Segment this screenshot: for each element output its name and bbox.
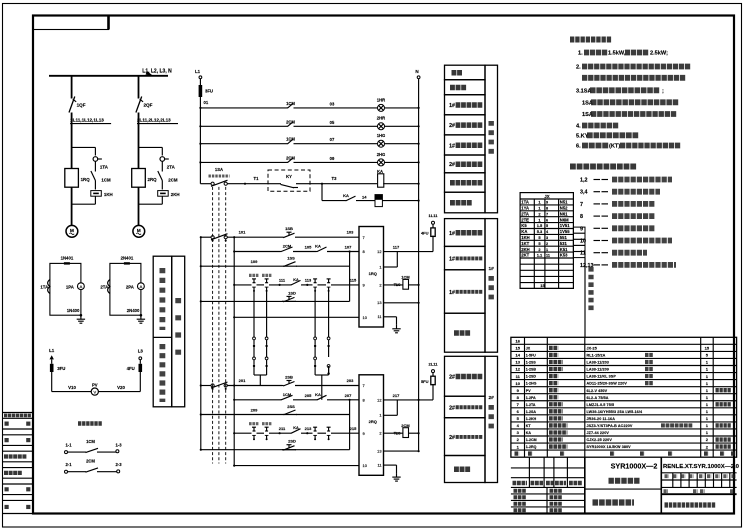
revision table row text (5, 438, 10, 442)
svg-text:K51: K51 (560, 247, 568, 252)
svg-text:(KT): (KT) (609, 144, 620, 150)
svg-text:1-3: 1-3 (115, 443, 122, 448)
svg-text:2TA: 2TA (521, 211, 529, 216)
breaker 1QF (69, 97, 75, 113)
svg-text:2QF: 2QF (144, 103, 153, 108)
group bracket pump2 (485, 356, 498, 482)
wire feeder 1 drop (71, 76, 73, 99)
svg-text:KA: KA (377, 169, 383, 174)
svg-text:4.: 4. (576, 124, 581, 130)
svg-text:1-1: 1-1 (65, 443, 72, 448)
label cell (445, 95, 486, 115)
svg-text:2TA: 2TA (100, 285, 108, 290)
svg-text:RL1-15/2A: RL1-15/2A (587, 354, 606, 358)
contact 2CM (287, 125, 289, 127)
svg-text:1QF: 1QF (77, 103, 86, 108)
svg-text:2L11,2L12,2L13: 2L11,2L12,2L13 (137, 118, 171, 123)
svg-text:1KH: 1KH (104, 192, 113, 197)
interlock contact a pump 1 (314, 279, 316, 283)
svg-text:1SD: 1SD (288, 290, 296, 295)
svg-text:2#: 2# (449, 162, 455, 168)
svg-text:205: 205 (305, 393, 312, 398)
label cell (445, 246, 486, 269)
current transformer 1TA (93, 157, 98, 162)
svg-text:1.5: 1.5 (537, 223, 543, 228)
svg-text:14: 14 (515, 353, 520, 358)
pushbutton 1SS (283, 265, 285, 267)
svg-text:10: 10 (515, 381, 520, 386)
pushbutton 1SB (282, 236, 284, 238)
wire seal vertical pump 1 (349, 252, 351, 302)
wire interlock join left (254, 374, 267, 376)
svg-text:15: 15 (705, 346, 710, 351)
svg-text:K53: K53 (560, 253, 568, 258)
contact KA run pump 1 (316, 251, 318, 253)
svg-text:1CM: 1CM (101, 178, 111, 183)
svg-text:CJX2-25 220V: CJX2-25 220V (587, 438, 613, 442)
label to central control room (78, 421, 103, 426)
label cell (445, 173, 486, 192)
ammeter 1PA (78, 283, 85, 290)
wire rung lamp 1HR (200, 107, 286, 109)
svg-text:1-2SB: 1-2SB (526, 368, 537, 372)
svg-text:1HG: 1HG (377, 133, 386, 138)
svg-text:K5: K5 (521, 223, 527, 228)
svg-text:2CM: 2CM (286, 119, 295, 124)
label cell (445, 356, 486, 396)
svg-text:5: 5 (546, 224, 548, 228)
fuse 4FU (431, 228, 435, 237)
svg-text:2-1: 2-1 (65, 462, 72, 467)
svg-text:1-2HG: 1-2HG (526, 382, 537, 386)
svg-text:1#: 1# (449, 103, 455, 109)
wire rung timer (322, 200, 345, 202)
svg-text:1-2SA: 1-2SA (526, 410, 537, 414)
timer contact 2KT pump 1 (266, 279, 268, 283)
title block frame (584, 457, 586, 513)
svg-text:2N400: 2N400 (127, 308, 140, 313)
svg-text:113: 113 (305, 278, 312, 283)
svg-text:7: 7 (546, 212, 548, 216)
svg-text:2CM: 2CM (286, 155, 295, 160)
wire bypass branch 1 (72, 146, 96, 148)
svg-text:2SD: 2SD (288, 439, 296, 444)
wire feeder 1 main (71, 113, 73, 169)
interlock column 1CM a (253, 291, 255, 337)
label cell (445, 192, 486, 213)
thermal relay 1KH (91, 191, 102, 197)
svg-text:JSZ3-Y/ST3PA-B AC220V: JSZ3-Y/ST3PA-B AC220V (587, 424, 633, 428)
vertical label measuring circuit (175, 298, 181, 366)
svg-text:551: 551 (560, 235, 568, 240)
svg-text:1.5kW,: 1.5kW, (608, 51, 626, 57)
svg-text:1-2PA: 1-2PA (526, 396, 536, 400)
svg-text:12,13: 12,13 (580, 263, 594, 269)
svg-text:V20: V20 (117, 385, 125, 390)
bill of materials table (511, 337, 737, 457)
svg-text:2PA: 2PA (126, 285, 134, 290)
svg-text:1V55: 1V55 (560, 229, 570, 234)
notes line 3 (582, 75, 686, 81)
breaker 2QF (136, 97, 142, 113)
svg-text:2TE: 2TE (521, 217, 529, 222)
timer contact 2KT pump 2 (266, 427, 268, 431)
pushbutton 2SD (282, 449, 284, 451)
selector contacts pump 2 (211, 384, 214, 387)
svg-text:6: 6 (546, 218, 548, 222)
title block signature rows (511, 493, 585, 495)
wire pin2 coil pump 2 (384, 432, 403, 434)
wire motor feed 2 (138, 187, 140, 225)
svg-text:10: 10 (363, 463, 368, 468)
wire voltmeter right (98, 391, 140, 393)
svg-text:RENLE.XT.SYR.1000X—2.0: RENLE.XT.SYR.1000X—2.0 (663, 464, 739, 470)
svg-text:2KH: 2KH (521, 247, 529, 252)
title drawing name (609, 478, 641, 484)
wire pin12 supply pump 2 (384, 399, 434, 401)
svg-text:2HG: 2HG (377, 152, 386, 157)
svg-text:10: 10 (363, 315, 368, 320)
svg-text:1SS: 1SS (287, 256, 295, 261)
label cell (445, 418, 486, 456)
title strip box top-left (33, 16, 109, 30)
title right small grid (672, 473, 674, 488)
notes title pump control description (570, 37, 612, 43)
svg-text:2HR: 2HR (377, 116, 385, 121)
svg-text:JZ7-44 220V: JZ7-44 220V (587, 431, 610, 435)
svg-text:2RQ: 2RQ (369, 419, 377, 424)
wire rung lamp 2HG (200, 161, 286, 163)
wire pin11 earth pump 2 (384, 464, 397, 466)
wire rung lamp 1HG (200, 143, 286, 145)
svg-text:1#: 1# (449, 290, 455, 296)
svg-text:JX: JX (544, 194, 549, 199)
svg-text:1-2SD: 1-2SD (526, 375, 537, 379)
svg-text:11: 11 (377, 314, 381, 319)
svg-text:KY: KY (286, 174, 292, 179)
svg-text:13: 13 (515, 360, 520, 365)
svg-text:11: 11 (580, 251, 586, 257)
contact 2CM interlock (280, 251, 282, 253)
measuring loop 2 wire (110, 263, 141, 315)
svg-text:13: 13 (377, 300, 381, 305)
svg-text:2: 2 (379, 431, 381, 436)
svg-text:01: 01 (204, 100, 209, 105)
svg-text:217: 217 (393, 393, 400, 398)
terminal strip table JX (520, 193, 573, 289)
svg-text:N52: N52 (560, 206, 568, 211)
revision table row text (5, 505, 10, 509)
label cell (445, 80, 486, 95)
svg-text:05: 05 (330, 120, 335, 125)
svg-text:N51: N51 (560, 200, 568, 205)
svg-text:107: 107 (345, 245, 352, 250)
svg-text:3FU: 3FU (57, 366, 65, 371)
notes title soft starter terminals (570, 164, 637, 170)
title block left revision grid (511, 467, 585, 469)
svg-text:5.KY: 5.KY (576, 134, 589, 140)
wire rail L1 control (199, 97, 201, 184)
wire KY to KA coil (310, 183, 377, 185)
revision table header text (4, 414, 32, 418)
svg-text:L1: L1 (195, 69, 201, 74)
svg-text:1CM: 1CM (283, 392, 292, 397)
label cell (445, 456, 486, 483)
soft starter box 2RQ control (359, 375, 384, 476)
wire rung soft stop pump 2 (201, 449, 350, 451)
svg-text:1-5FU: 1-5FU (526, 354, 536, 358)
junction dot N and 217 (418, 399, 420, 401)
svg-text:L1: L1 (49, 348, 55, 353)
wire bypass rejoin 2 (161, 196, 163, 204)
svg-text:2: 2 (379, 282, 381, 287)
wire pin13 neutral pump 1 (384, 302, 419, 304)
svg-text:;: ; (662, 89, 664, 95)
svg-text:KA: KA (315, 244, 321, 249)
wire rung automatic control (200, 183, 211, 185)
svg-text:1L11: 1L11 (429, 213, 439, 218)
svg-text:KA: KA (343, 193, 349, 198)
svg-text:2CM: 2CM (86, 459, 95, 464)
svg-text:LMZJ1-0.5 75/5: LMZJ1-0.5 75/5 (587, 403, 615, 407)
svg-text:1SB: 1SB (285, 226, 293, 231)
svg-text:2CM: 2CM (168, 178, 178, 183)
svg-text:109: 109 (251, 259, 258, 264)
svg-text:4FU: 4FU (421, 231, 429, 236)
svg-text:9: 9 (580, 226, 583, 232)
svg-text:3: 3 (546, 236, 548, 240)
svg-text:6.: 6. (576, 144, 581, 150)
svg-text:2SB: 2SB (285, 375, 293, 380)
label cell (445, 396, 486, 418)
label cell (445, 313, 486, 352)
svg-text:15: 15 (540, 283, 545, 288)
svg-text:1#: 1# (489, 266, 495, 272)
ground of loop 1 (80, 314, 83, 317)
pushbutton 2SB (282, 385, 284, 387)
svg-text:2KH: 2KH (171, 192, 180, 197)
lamp 2HG (378, 159, 385, 166)
svg-text:2SS: 2SS (287, 404, 295, 409)
svg-text:2.5kW;: 2.5kW; (650, 51, 668, 57)
contact 1CM (287, 143, 289, 145)
soft starter box 1RQ (65, 169, 79, 188)
wire rung start button pump 2 (201, 414, 350, 416)
svg-text:07: 07 (330, 137, 335, 142)
svg-text:7: 7 (580, 202, 583, 208)
svg-text:12: 12 (377, 397, 381, 402)
wire rung stop pump 2 (201, 385, 211, 387)
svg-text:11: 11 (377, 463, 381, 468)
contact 1CM interlock (280, 399, 282, 401)
wire interlock join right (315, 374, 329, 376)
svg-text:207: 207 (345, 393, 352, 398)
ground soft starter pump 2 (396, 473, 398, 477)
measuring loop 1 wire (50, 263, 81, 315)
title company name (665, 502, 717, 507)
wire pin2 coil pump 1 (384, 284, 403, 286)
interlock contact b pump 2 (328, 427, 330, 431)
svg-text:3,4: 3,4 (580, 190, 588, 196)
svg-text:1PA: 1PA (66, 285, 74, 290)
svg-text:5FU: 5FU (421, 379, 429, 384)
bom header row (515, 451, 520, 455)
fuse 3FU (50, 364, 54, 372)
svg-text:V: V (93, 390, 96, 395)
svg-text:209: 209 (251, 408, 258, 413)
svg-text:LA38-11/209: LA38-11/209 (587, 368, 609, 372)
svg-text:115: 115 (350, 278, 357, 283)
timer contact 1KT pump 2 (253, 427, 255, 431)
interlock column 2CM b (328, 291, 330, 337)
wire branch to KT (321, 184, 323, 201)
svg-text:12: 12 (515, 367, 520, 372)
svg-text:1: 1 (546, 248, 548, 252)
svg-text:117: 117 (393, 245, 400, 250)
svg-text:1: 1 (379, 413, 381, 418)
ammeter 2PA (138, 283, 145, 290)
svg-text:1L11,1L12,1L13: 1L11,1L12,1L13 (70, 118, 104, 123)
wire pin1 link pump 1 (384, 266, 398, 268)
svg-text:1CM: 1CM (286, 101, 295, 106)
svg-text:KA: KA (521, 229, 527, 234)
svg-text:03: 03 (330, 101, 335, 106)
wire rung timer contacts pump 1 (234, 284, 251, 286)
svg-text:1RQ: 1RQ (81, 177, 91, 182)
wire pin13 neutral pump 2 (384, 450, 419, 452)
svg-text:2#: 2# (489, 395, 495, 401)
svg-text:KA: KA (293, 426, 299, 430)
wire rail lower left (200, 237, 202, 450)
svg-text:9: 9 (546, 201, 548, 205)
svg-text:2CM: 2CM (401, 423, 410, 428)
wire rung common pump 1 (234, 316, 359, 318)
svg-text:12: 12 (377, 249, 381, 254)
svg-text:T2C: T2C (394, 431, 401, 435)
svg-text:1-2RQ: 1-2RQ (526, 445, 537, 449)
wire bypass rejoin 1 (94, 196, 96, 204)
wire rail N (418, 79, 420, 451)
timer contact 1KT pump 1 (253, 279, 255, 283)
revision table row text (4, 471, 22, 475)
svg-text:1-2TA: 1-2TA (526, 403, 536, 407)
wire rung start pump 1 (234, 251, 280, 253)
svg-text:1#: 1# (449, 256, 455, 262)
svg-text:PV: PV (526, 389, 531, 393)
lamp 1HG (378, 140, 385, 147)
svg-text:1: 1 (379, 264, 381, 269)
svg-text:103: 103 (347, 230, 354, 235)
svg-text:15: 15 (515, 346, 520, 351)
selector contacts pump 1 (211, 236, 214, 239)
terminal table side cells (573, 227, 585, 258)
svg-text:2: 2 (546, 242, 548, 246)
svg-text:1KT: 1KT (521, 241, 529, 246)
bus incoming arrow (146, 71, 154, 76)
contact KA auto pump 2 (290, 432, 292, 434)
svg-text:1CM: 1CM (286, 137, 295, 142)
svg-text:1TA: 1TA (40, 285, 48, 290)
vertical label current measuring circuit (159, 268, 165, 330)
svg-text:8: 8 (546, 207, 548, 211)
svg-text:105: 105 (305, 245, 312, 250)
svg-text:AD11-25/20-3SW 220V: AD11-25/20-3SW 220V (587, 382, 628, 386)
group bracket control circuit (485, 65, 498, 213)
svg-text:3.1SA: 3.1SA (576, 89, 592, 95)
svg-text:1#: 1# (449, 231, 455, 237)
contact KA run pump 2 (316, 399, 318, 401)
CT secondary 1TA (48, 280, 50, 294)
wire rung stop pump 1 (201, 236, 211, 238)
svg-text:2#: 2# (449, 375, 455, 381)
soft starter box 2RQ (132, 169, 146, 188)
timer coil KT (375, 195, 382, 207)
svg-text:2#: 2# (449, 123, 455, 129)
svg-text:101: 101 (239, 230, 246, 235)
svg-text:2N401: 2N401 (121, 256, 134, 261)
label box measuring circuits (153, 256, 172, 407)
svg-text:2#: 2# (449, 435, 455, 441)
svg-text:KA: KA (526, 431, 532, 435)
svg-text:1N400: 1N400 (67, 308, 80, 313)
svg-text:PV: PV (92, 382, 98, 387)
interlock column 2CM a (314, 291, 316, 337)
wire rung start button pump 1 (201, 265, 350, 267)
svg-text:531: 531 (560, 241, 568, 246)
revision table row text (4, 454, 27, 458)
svg-text:A: A (80, 284, 83, 289)
pushbutton 1SD (282, 300, 284, 302)
group bracket pump1 (485, 219, 498, 353)
interlock column 1CM b (266, 291, 268, 337)
svg-text:LA38-11/KL 3SP: LA38-11/KL 3SP (587, 375, 617, 379)
svg-text:N61: N61 (560, 211, 568, 216)
svg-text:1-2CM: 1-2CM (526, 438, 537, 442)
contact 1CM (287, 107, 289, 109)
contact KA auto pump 1 (290, 284, 292, 286)
svg-text:SYR1000X 18.5KW 380V: SYR1000X 18.5KW 380V (587, 445, 632, 449)
svg-text:KA: KA (293, 278, 299, 282)
svg-text:1#: 1# (449, 143, 455, 149)
remote input box KY dashed (268, 170, 310, 191)
vertical label voltage measuring circuit (159, 344, 165, 402)
soft starter box 1RQ control (359, 227, 384, 328)
label cell (445, 65, 486, 80)
svg-text:215: 215 (350, 426, 357, 431)
svg-text:14: 14 (362, 195, 367, 200)
wire bypass branch 2 (139, 146, 163, 148)
lamp 2HR (378, 123, 385, 130)
wire pin11 earth pump 1 (384, 316, 397, 318)
svg-text:16: 16 (515, 339, 520, 344)
svg-text:1CM: 1CM (86, 439, 95, 444)
svg-text:201: 201 (239, 378, 246, 383)
wire rung common pump 2 (234, 465, 359, 467)
wire rung start pump 2 (234, 399, 280, 401)
svg-text:09: 09 (330, 156, 335, 161)
label cell (445, 115, 486, 135)
svg-text:L3: L3 (138, 349, 144, 354)
svg-text:SYR1000X—2: SYR1000X—2 (611, 462, 658, 471)
svg-text:1N401: 1N401 (61, 256, 74, 261)
fuse 5FU (431, 376, 435, 385)
svg-text:1YA: 1YA (521, 206, 529, 211)
power bus L1,L2,L3,N (49, 75, 168, 77)
revision table row text (5, 422, 10, 426)
svg-text:211: 211 (279, 426, 286, 431)
interlock contact b pump 1 (328, 279, 330, 283)
svg-text:8: 8 (580, 214, 583, 220)
